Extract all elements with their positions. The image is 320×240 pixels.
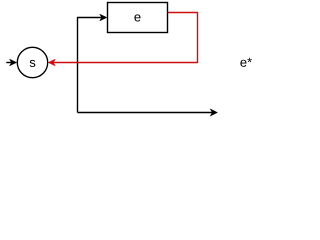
red arrowhead into summing node <box>48 59 55 66</box>
node label e* <box>240 58 252 67</box>
arrowhead: input into summing node S <box>10 59 17 66</box>
red feedback wire from block e output <box>53 13 197 63</box>
summing node S (circle) <box>17 47 47 77</box>
wire: branch vertical + top run toward block e <box>78 18 102 113</box>
label e <box>134 14 140 21</box>
arrowhead: bottom output <box>210 109 217 116</box>
wire: bottom output run <box>78 112 213 114</box>
arrowhead into block e <box>100 14 107 21</box>
block e (rectangle) <box>108 3 168 33</box>
label s <box>30 60 36 67</box>
wire: input arrow tail into summing node S <box>6 62 11 64</box>
